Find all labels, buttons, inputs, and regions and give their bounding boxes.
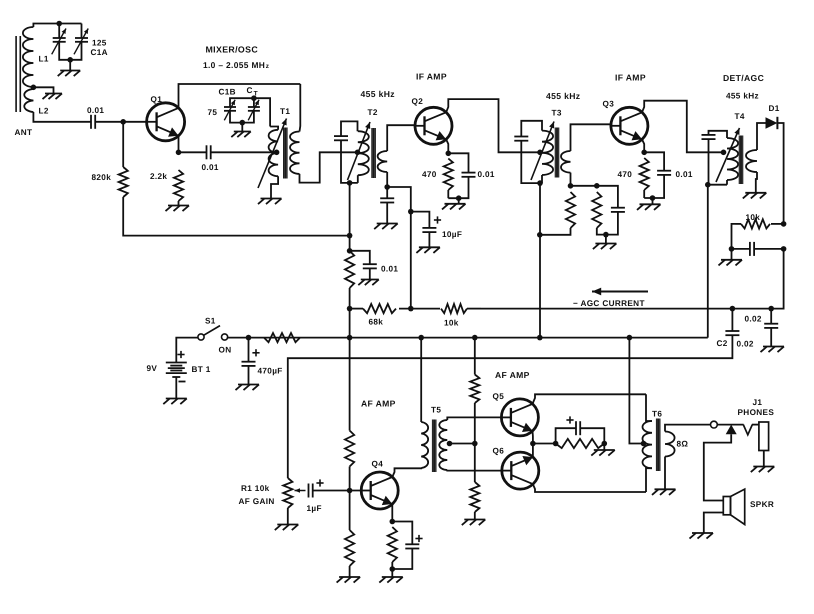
svg-text:0.01: 0.01 xyxy=(676,170,693,179)
wire Q3 ground stem xyxy=(652,198,654,204)
svg-text:T3: T3 xyxy=(552,109,562,118)
svg-text:C1A: C1A xyxy=(91,48,108,57)
wire det 10k left lead xyxy=(736,223,742,225)
svg-text:DET/AGC: DET/AGC xyxy=(723,73,764,83)
wire 10k right lead xyxy=(771,223,784,225)
capacitor 470uF xyxy=(242,362,256,366)
wire RC cap branch top xyxy=(597,186,618,208)
resistor Q5Q6 bias upper xyxy=(470,375,479,404)
wire AGC node to supply xyxy=(349,309,351,338)
wire 2.2k to ground xyxy=(178,201,180,206)
svg-text:1.0 – 2.055 MH: 1.0 – 2.055 MH xyxy=(203,60,265,70)
svg-text:75: 75 xyxy=(208,108,218,117)
arrow AGC current xyxy=(592,288,648,296)
node Q2 emitter ground xyxy=(456,195,462,201)
svg-text:L1: L1 xyxy=(39,55,49,64)
wire L1/L2 tap to ground xyxy=(33,87,53,93)
arrow T2 tuning slug xyxy=(348,122,371,180)
wire battery top lead xyxy=(176,338,198,363)
ground Q3 emitter xyxy=(637,204,661,210)
node 0.02 top xyxy=(768,306,774,312)
wire emitters to RC xyxy=(533,443,556,445)
node T2 primary tap xyxy=(355,150,361,156)
wire T2 secondary top to Q2 base xyxy=(387,125,415,151)
wire Q1 emitter lead xyxy=(178,136,180,153)
transformer T2 primary winding xyxy=(358,131,369,175)
svg-text:Q2: Q2 xyxy=(412,97,424,106)
wire Q4 emitter cap branch xyxy=(392,522,412,545)
wire Q2 470 bottom xyxy=(447,190,449,198)
ground Q4 emitter xyxy=(379,577,403,583)
jack switch contact triangle xyxy=(726,425,737,435)
wire RC ground stem xyxy=(605,235,607,244)
node Q3 emitter xyxy=(641,150,647,156)
resistor 470 Q3 xyxy=(640,158,649,190)
switch S1 xyxy=(198,326,228,341)
capacitor T2 tank xyxy=(334,136,348,140)
ground T3 RC xyxy=(593,244,617,250)
wire 820k to AGC bus line xyxy=(123,197,349,236)
node T4 primary tap xyxy=(721,150,727,156)
ground C1A xyxy=(58,71,80,77)
node T3 primary tap xyxy=(537,150,543,156)
wire T6 primary bottom lead xyxy=(646,468,652,492)
svg-text:ON: ON xyxy=(219,346,232,355)
node C1A bottom xyxy=(67,57,73,63)
node Q2 emitter xyxy=(446,151,452,157)
ground 2.2k xyxy=(166,206,190,212)
wire T3 secondary bottom lead xyxy=(570,173,572,186)
wire 68k to 10k xyxy=(399,308,440,310)
node det filter bottom right xyxy=(781,246,787,252)
wire RC ground stem xyxy=(603,444,605,451)
wire bypass cap to ground xyxy=(386,203,388,224)
wire Q2 bypass bottom xyxy=(448,177,468,198)
wire C1A-b top lead xyxy=(81,24,83,39)
wire supply to bias resistor xyxy=(474,338,476,375)
wire cap to Q1 base node xyxy=(95,121,147,123)
node supply C xyxy=(537,335,543,341)
svg-text:470µF: 470µF xyxy=(258,367,283,376)
ground T6 secondary xyxy=(652,489,676,495)
resistor Q4 bias lower xyxy=(345,530,354,566)
transistor Q4 xyxy=(361,472,398,509)
capacitor detector filter xyxy=(750,242,754,256)
node C1B/CT bottom xyxy=(240,120,246,126)
transformer T5 core xyxy=(432,420,437,473)
resistor Q4 bias upper xyxy=(345,431,354,467)
ground speaker xyxy=(690,533,714,539)
node T2 secondary bottom xyxy=(384,184,390,190)
capacitor T3 tank xyxy=(514,137,528,141)
wire T6 secondary bottom to ground xyxy=(664,457,666,490)
wire Q4 emitter res bottom xyxy=(391,562,393,569)
wire base to bias lower xyxy=(349,491,351,531)
svg-text:C2: C2 xyxy=(717,339,728,348)
wire 470uF top lead xyxy=(248,338,250,362)
wire T3 cap bottom leg xyxy=(521,141,542,183)
resistor AGC decoupling xyxy=(345,251,354,288)
wire Q1 collector to top bar xyxy=(179,84,301,109)
svg-text:AF AMP: AF AMP xyxy=(361,399,396,409)
svg-text:− AGC CURRENT: − AGC CURRENT xyxy=(573,299,645,308)
svg-text:470: 470 xyxy=(422,170,437,179)
ground 470uF xyxy=(236,385,260,391)
capacitor 0.01 AGC filter xyxy=(363,264,377,268)
svg-text:Q1: Q1 xyxy=(151,95,163,104)
jack spring contact xyxy=(743,425,752,435)
svg-text:10µF: 10µF xyxy=(442,230,462,239)
svg-text:0.01: 0.01 xyxy=(202,163,219,172)
wire phones to ground xyxy=(763,451,765,467)
capacitor T3 AGC RC xyxy=(611,208,625,212)
svg-text:0.01: 0.01 xyxy=(478,170,495,179)
wire jack switch to speaker xyxy=(704,434,731,500)
plus emitter bypass xyxy=(566,416,573,423)
svg-text:R1 10k: R1 10k xyxy=(241,484,270,493)
wire T1 primary top jog xyxy=(270,127,278,130)
wire speaker to ground xyxy=(704,513,724,534)
wire C1A bottom bar xyxy=(59,42,81,60)
wire T4 secondary top to D1 xyxy=(757,123,766,150)
capacitor 0.01 antenna coupling xyxy=(91,115,95,129)
wire C2 top lead xyxy=(731,309,733,331)
svg-text:10k: 10k xyxy=(746,213,761,222)
transformer T2 secondary winding xyxy=(378,151,388,172)
wire resistor to AGC node xyxy=(349,288,351,309)
capacitor 0.01 Q2 bypass xyxy=(462,173,476,177)
capacitor 0.01 Q3 bypass xyxy=(657,171,671,175)
ground Q4 bias xyxy=(337,577,361,583)
node T6 center tap xyxy=(641,441,647,447)
svg-text:T: T xyxy=(254,91,258,98)
wire trimmer ground lead xyxy=(241,123,243,132)
svg-text:1µF: 1µF xyxy=(307,504,322,513)
node A decoupling top xyxy=(347,248,353,254)
resistor 68k xyxy=(363,304,396,313)
wire bias lower to ground xyxy=(474,512,476,520)
wire Q5 collector xyxy=(533,394,647,404)
node Q5Q6 emitters xyxy=(530,441,536,447)
transformer T3 core xyxy=(555,128,560,178)
wire base node down to 820k xyxy=(122,122,124,167)
node det filter left xyxy=(729,246,735,252)
arrow T4 tuning slug xyxy=(716,128,740,182)
plus battery xyxy=(177,351,184,358)
wire Q3 470 bottom xyxy=(643,190,645,198)
resistor 10k detector xyxy=(741,219,770,228)
capacitor T4 tank xyxy=(702,135,716,139)
svg-text:455 kHz: 455 kHz xyxy=(726,92,759,101)
svg-text:PHONES: PHONES xyxy=(738,408,775,417)
wire 10k left leg xyxy=(732,224,736,249)
wire T1 secondary top lead xyxy=(299,84,302,132)
node AGC left xyxy=(347,306,353,312)
transformer T6 core xyxy=(656,419,661,472)
wire 0.01 to ground xyxy=(369,268,371,279)
wire vertical A to Q4 chain xyxy=(349,338,351,431)
variable capacitor C1B xyxy=(224,100,236,121)
svg-text:T2: T2 xyxy=(368,108,378,117)
wire T5 tap to bias node xyxy=(450,443,475,445)
svg-text:455 kHz: 455 kHz xyxy=(546,91,580,101)
wire C1B-CT top bar xyxy=(230,98,270,126)
node A 820k line xyxy=(347,233,353,239)
resistor Q5Q6 emitter xyxy=(556,439,605,448)
node T3 RC top xyxy=(594,183,600,189)
plus Q4 bypass xyxy=(415,535,422,542)
antenna ferrite core xyxy=(15,36,17,112)
variable capacitor C1A section b xyxy=(74,29,88,55)
ground phones xyxy=(751,467,775,473)
svg-text:125: 125 xyxy=(92,39,107,48)
svg-text:8Ω: 8Ω xyxy=(677,440,689,449)
svg-text:T4: T4 xyxy=(735,112,745,121)
node RC left xyxy=(553,441,559,447)
svg-text:J1: J1 xyxy=(753,398,763,407)
transformer T3 primary winding xyxy=(542,131,553,175)
wire det cap right lead xyxy=(754,248,784,250)
svg-text:D1: D1 xyxy=(769,104,780,113)
svg-text:AF AMP: AF AMP xyxy=(495,370,530,380)
transformer T5 secondary winding xyxy=(439,420,447,470)
wire T2 primary bottom lead xyxy=(357,175,359,183)
svg-text:IF AMP: IF AMP xyxy=(416,72,447,82)
wire bias upper to base xyxy=(349,467,351,491)
svg-text:MIXER/OSC: MIXER/OSC xyxy=(206,45,259,55)
node RC right xyxy=(602,441,608,447)
variable capacitor CT xyxy=(248,100,260,121)
wire RC cap arch xyxy=(556,428,576,443)
wire Q6 collector xyxy=(533,484,646,492)
wire Q4 bypass bottom xyxy=(392,549,412,570)
node AGC mid xyxy=(408,306,414,312)
ground Q5Q6 bias xyxy=(462,520,486,526)
ground battery xyxy=(163,399,187,405)
svg-text:470: 470 xyxy=(618,170,633,179)
wire T4 tank cap leg xyxy=(709,131,728,138)
wire T3 tank cap leg xyxy=(521,121,542,137)
wire T2 tank cap leg xyxy=(341,121,358,136)
node L1/L2 junction xyxy=(31,85,37,91)
svg-text:T6: T6 xyxy=(652,410,662,419)
coil L2 xyxy=(24,89,33,112)
svg-text:455 kHz: 455 kHz xyxy=(361,89,395,99)
wire 10uF branch xyxy=(411,212,430,228)
wire Q4 collector xyxy=(392,468,421,477)
svg-text:68k: 68k xyxy=(369,318,384,327)
potentiometer R1 10k xyxy=(283,478,292,508)
arrow T1 tuning slug xyxy=(258,119,287,189)
wire Q2 emitter lead xyxy=(446,139,448,153)
node CT top xyxy=(251,95,257,101)
wire Q4 emitter lead xyxy=(391,504,393,522)
svg-text:10k: 10k xyxy=(444,319,459,328)
arrow R1 wiper xyxy=(295,488,306,493)
transistor Q1 xyxy=(147,103,185,141)
transformer T2 core xyxy=(371,128,376,178)
wire T1 primary bottom to ground xyxy=(271,176,278,198)
speaker xyxy=(723,489,744,524)
wire 10k right lead agc xyxy=(467,308,481,310)
capacitor Q4 emitter bypass xyxy=(405,544,419,548)
wire Q3 bypass bottom xyxy=(644,175,664,198)
transformer T1 primary winding xyxy=(269,130,279,176)
wire vertical A T2 to supply xyxy=(349,183,351,251)
node supply T6 xyxy=(627,335,633,341)
wire Q6 emitter lead xyxy=(532,444,534,458)
wire T5 secondary top to Q5 base xyxy=(447,417,501,420)
transformer T1 secondary winding xyxy=(290,132,300,174)
transistor Q2 xyxy=(415,107,452,144)
wire T4 primary bottom lead xyxy=(726,180,728,185)
wire C1A to ground xyxy=(69,60,71,71)
transformer T4 core xyxy=(739,136,744,185)
wire C1B-CT bottom bar xyxy=(230,111,254,122)
resistor 2.2k xyxy=(174,170,183,201)
svg-text:Q3: Q3 xyxy=(603,100,615,109)
wire vertical D xyxy=(707,185,709,338)
wire L2 bottom to antenna output xyxy=(33,112,91,122)
wire Q5 emitter lead xyxy=(532,431,534,444)
node T2 primary bottom xyxy=(347,180,353,186)
node Q4 emitter ground xyxy=(390,566,396,572)
wire R1 to ground xyxy=(287,508,289,525)
wire supply to T6 tap xyxy=(629,338,643,444)
svg-text:SPKR: SPKR xyxy=(750,500,774,509)
transistor Q5 xyxy=(501,399,538,436)
wire Q3 emitter lead xyxy=(642,139,644,152)
wire T6 secondary top lead xyxy=(665,425,710,432)
wire Q2 ground stem xyxy=(458,198,460,204)
svg-text:S1: S1 xyxy=(205,317,216,326)
wire L1 top to C1A top bar xyxy=(33,24,81,28)
svg-text:C1B: C1B xyxy=(219,88,236,97)
svg-text:2.2k: 2.2k xyxy=(150,172,167,181)
node Q3 emitter ground xyxy=(650,195,656,201)
wire T3 secondary top to Q3 base xyxy=(571,124,611,151)
wire vertical C xyxy=(539,183,541,338)
transformer T4 primary winding xyxy=(727,138,738,180)
transformer T5 primary winding xyxy=(421,422,428,468)
wire D1 to right vertical xyxy=(777,123,783,224)
node C2 top xyxy=(730,306,736,312)
phones element xyxy=(759,422,769,451)
wire audio line xyxy=(288,335,733,478)
wire 1uF to Q4 base xyxy=(313,490,362,492)
svg-text:T1: T1 xyxy=(280,107,290,116)
ground C1B/CT xyxy=(231,132,251,138)
svg-text:Q6: Q6 xyxy=(493,447,505,456)
transformer T3 secondary winding xyxy=(561,151,571,173)
wire Q4 ground stem xyxy=(391,569,393,577)
ground R1 xyxy=(275,525,299,531)
svg-text:ANT: ANT xyxy=(15,128,33,137)
wire jack to plug triangle xyxy=(717,424,743,426)
capacitor Q5Q6 emitter bypass xyxy=(576,421,580,435)
wire 0.02 to ground xyxy=(770,328,772,347)
transformer T6 primary winding xyxy=(643,421,653,468)
wire emitter to 0.01 xyxy=(179,151,207,153)
wire bypass cap top lead xyxy=(386,187,388,198)
node 10uF tap xyxy=(408,209,414,215)
wire 0.01 branch xyxy=(350,251,370,264)
svg-text:0.02: 0.02 xyxy=(737,340,754,349)
svg-text:Q4: Q4 xyxy=(372,460,384,469)
wire T2 secondary bottom to vertical B xyxy=(387,187,411,309)
ground 0.01 AGC filter xyxy=(358,280,379,286)
capacitor 0.02 xyxy=(764,324,778,328)
node L1/C1A top xyxy=(56,21,62,27)
resistor 10k AGC xyxy=(441,304,467,313)
wire T2 secondary bottom lead xyxy=(386,172,388,187)
node Q1 emitter xyxy=(176,150,182,156)
wire T4 secondary bottom to ground xyxy=(756,172,757,193)
ground Q2 emitter xyxy=(442,204,466,210)
node Q4 emitter xyxy=(390,519,396,525)
wire RC cap arch right xyxy=(580,428,604,443)
wire T5 secondary bottom to Q6 base xyxy=(447,469,501,472)
arrow T3 tuning slug xyxy=(531,122,554,181)
svg-text:0.01: 0.01 xyxy=(381,265,398,274)
wire T2 cap bottom leg xyxy=(341,140,358,183)
resistor T3 AGC RC xyxy=(592,192,601,228)
wire Q3 bypass branch xyxy=(644,152,664,170)
ground T4 secondary xyxy=(743,193,767,199)
wire CT top lead xyxy=(253,98,255,107)
svg-text:C: C xyxy=(247,86,253,95)
node T3 primary bottom xyxy=(537,180,543,186)
capacitor 0.01 oscillator feedback xyxy=(207,145,211,159)
transformer T4 secondary winding xyxy=(746,150,757,172)
resistor Q4 emitter xyxy=(388,527,397,562)
capacitor T2 secondary bypass xyxy=(380,198,394,202)
node T3 secondary bottom xyxy=(568,183,574,189)
wire 0.01 to T1 tap xyxy=(211,151,276,153)
resistor Q5Q6 bias lower xyxy=(470,482,479,512)
svg-text:0.01: 0.01 xyxy=(87,106,104,115)
wire C1A-a top lead xyxy=(58,24,60,39)
ground 0.02 xyxy=(761,347,785,353)
transistor Q6 xyxy=(502,452,539,489)
ground Q5Q6 emitter xyxy=(591,450,615,456)
plus 1uF xyxy=(316,479,323,486)
resistor supply filter xyxy=(264,333,300,342)
node RC ground xyxy=(603,232,609,238)
wire AGC line right xyxy=(481,249,784,309)
ground detector filter xyxy=(719,260,743,266)
diode D1 xyxy=(766,117,778,129)
wire battery to ground xyxy=(175,377,177,399)
node Q1 base xyxy=(120,119,126,125)
svg-text:AF GAIN: AF GAIN xyxy=(239,497,275,506)
svg-text:BT 1: BT 1 xyxy=(192,365,211,374)
wire Q2 bypass branch xyxy=(448,153,468,172)
transistor Q3 xyxy=(611,107,648,144)
ground L1/L2 tap xyxy=(43,94,63,100)
svg-text:IF AMP: IF AMP xyxy=(615,73,646,83)
node vertical C r xyxy=(537,232,543,238)
plus 470uF xyxy=(252,349,259,356)
svg-text:820k: 820k xyxy=(92,173,112,182)
capacitor 1uF xyxy=(309,484,313,498)
wire supply to T5 primary xyxy=(420,338,422,422)
wire T5 primary bottom xyxy=(420,467,422,469)
wire T3 AGC RC branch xyxy=(571,185,597,187)
wire RC bottom bar xyxy=(597,212,618,235)
wire Q2 collector xyxy=(446,99,540,152)
resistor 820k xyxy=(119,167,128,197)
